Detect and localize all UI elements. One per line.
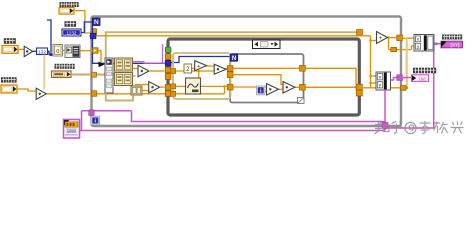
tunnels on while loop left border <box>165 47 171 96</box>
unbundle node B <box>115 73 133 86</box>
svg-text:0: 0 <box>56 49 59 55</box>
xing2 <box>451 122 464 134</box>
triangle T1 <box>195 61 207 71</box>
thick pale DBL-array vertical <box>406 38 408 88</box>
constant 0 box <box>53 45 63 57</box>
label order <box>65 21 77 27</box>
indicator each-curve <box>412 75 429 82</box>
svg-text:132: 132 <box>38 49 46 55</box>
stubs from index array <box>113 64 115 78</box>
tunnel order navy on border <box>90 33 96 39</box>
conversion triangle <box>24 46 33 56</box>
wires right of while loop <box>361 36 415 88</box>
tunnels on inner for loop left border <box>227 66 233 90</box>
control sample-rate <box>1 85 17 93</box>
pale array wire freq <box>71 74 115 76</box>
hu <box>391 122 403 135</box>
wire freq orange <box>63 51 102 63</box>
divide triangle sample-rate <box>36 88 46 99</box>
tunnels on inner for loop right border <box>298 65 306 103</box>
outer for loop <box>92 17 402 127</box>
wire duration navy continue <box>47 20 53 55</box>
svg-text:[Iv]: [Iv] <box>419 76 425 81</box>
i terminal inner <box>257 86 265 95</box>
sine function node <box>186 78 201 94</box>
wire duration <box>19 48 25 50</box>
small tan node low <box>131 86 142 95</box>
triangle mult A <box>138 65 149 76</box>
tunnel sample-rate outer border <box>91 91 96 97</box>
triangle mult B <box>149 82 160 93</box>
label synth-curve <box>442 35 462 40</box>
pink wire unbundle A to tunnel <box>133 44 166 76</box>
XY graph build icon <box>64 120 80 139</box>
junction dots orange right <box>369 36 408 89</box>
inner cream structure <box>173 53 231 99</box>
tunnel freq cluster on border <box>92 72 97 77</box>
@ <box>405 122 416 133</box>
constant 2 box <box>184 64 192 73</box>
triangle T3 <box>267 84 279 96</box>
faint duration branch vertical <box>43 55 45 90</box>
wires tri outputs to while tunnels <box>149 71 165 87</box>
pale array wire top <box>106 32 360 58</box>
i terminal outer <box>91 116 100 125</box>
unbundle node A <box>115 58 133 71</box>
inner for interior wires <box>233 68 356 91</box>
I32 conversion box <box>37 48 48 55</box>
indicator synth-curve <box>441 41 463 48</box>
svg-text:1132: 1132 <box>67 30 77 35</box>
control order I32 <box>62 29 81 36</box>
tunnel start-time on border <box>91 29 97 35</box>
case selector label <box>253 40 281 49</box>
label each-curve <box>413 68 436 74</box>
triangle T2 <box>214 64 226 74</box>
control freq-param cluster array <box>52 71 72 77</box>
svg-text:[XY]: [XY] <box>450 43 459 49</box>
xin <box>434 122 448 134</box>
while loop dark <box>168 39 359 115</box>
magenta tunnel left border <box>89 110 94 115</box>
svg-text:N: N <box>232 55 237 62</box>
triangle T4 <box>283 82 295 94</box>
svg-text:+: + <box>379 36 383 42</box>
while interior wires left <box>171 66 230 94</box>
junction dot duration <box>50 53 53 56</box>
bundle node 2 <box>376 72 391 90</box>
N terminal inner <box>231 54 238 62</box>
index array node <box>99 58 114 93</box>
watermark <box>375 121 464 134</box>
mid junction square <box>391 47 397 51</box>
control duration <box>2 46 18 54</box>
tunnel on case top right <box>357 30 363 36</box>
wire sample-rate <box>18 89 225 94</box>
pale array wire bottom left <box>106 93 133 101</box>
freq param array constant <box>65 45 80 58</box>
tunnels on cream structure left border <box>171 69 176 97</box>
svg-text:N: N <box>94 19 99 26</box>
stub orange to tri A <box>133 69 149 85</box>
label freq-param <box>55 64 75 69</box>
label duration <box>4 38 16 44</box>
add triangle right <box>377 32 388 44</box>
magenta tunnel bottom border <box>382 123 388 129</box>
bundle node 1 <box>414 35 434 52</box>
N terminal outer <box>93 18 101 26</box>
zhi <box>375 122 390 135</box>
tunnels on outer right border <box>397 35 406 90</box>
control start-time <box>59 8 74 15</box>
wire start-time orange <box>74 11 371 36</box>
tunnels on while right border <box>356 84 362 96</box>
magenta wires right <box>79 44 441 131</box>
li <box>420 121 431 134</box>
label sample-rate <box>1 77 17 82</box>
wire order navy <box>81 22 231 63</box>
inner for loop <box>230 54 304 103</box>
freq tunnel on border <box>93 48 99 54</box>
label start-time <box>60 2 79 7</box>
